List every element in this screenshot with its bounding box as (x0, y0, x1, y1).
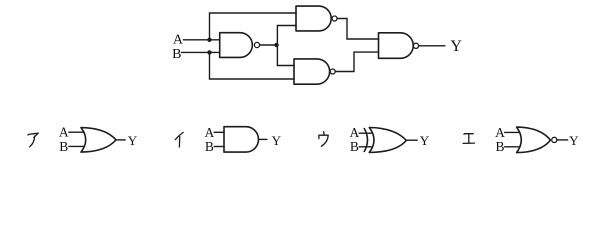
bubble U1 (254, 42, 259, 47)
bubble U3 (330, 69, 335, 74)
wire A into XOR (choice 3) (359, 132, 371, 134)
wire A branch up and across to U2 input 1 (210, 13, 297, 40)
wire NOR output (choice 4) (557, 139, 568, 141)
wire B into XOR (choice 3) (359, 146, 371, 148)
wire A lead (184, 39, 220, 41)
OR gate (choice 1) (81, 128, 116, 153)
bubble U2 (332, 16, 337, 21)
svg-text:A: A (173, 32, 184, 47)
wire AND output (choice 2) (259, 138, 267, 140)
AND gate (choice 2) (224, 127, 259, 152)
wire node up to U2 input 2 (277, 26, 296, 46)
wire U3 output to U4 input 2 (335, 52, 378, 71)
wire U1 output to node (260, 44, 277, 46)
NAND gate U1 (220, 33, 253, 58)
NAND gate U3 (294, 59, 330, 84)
wire XOR output (choice 3) (406, 139, 417, 141)
node U1 output (274, 43, 278, 47)
svg-text:Y: Y (128, 133, 138, 148)
svg-text:Y: Y (272, 133, 282, 148)
svg-text:A: A (350, 125, 360, 140)
svg-text:B: B (205, 139, 214, 154)
NOR gate (choice 4) (517, 127, 551, 153)
svg-text:A: A (59, 125, 69, 140)
svg-text:Y: Y (450, 38, 462, 55)
wire U2 output to U4 input 1 (337, 19, 378, 40)
svg-text:B: B (495, 139, 504, 154)
XOR gate body (choice 3) (369, 128, 406, 153)
NAND gate U2 (296, 6, 331, 31)
wire node down to U3 input 1 (277, 45, 294, 66)
wire B into OR (choice 1) (69, 145, 84, 147)
svg-text:Y: Y (569, 133, 579, 148)
NAND gate U4 (379, 33, 414, 59)
svg-text:Y: Y (420, 133, 430, 148)
wire B into NOR (choice 4) (505, 146, 520, 148)
wire B lead (182, 51, 220, 53)
bubble U4 (413, 43, 418, 48)
node on B line (207, 50, 211, 54)
wire A into AND (choice 2) (214, 131, 224, 133)
bubble NOR (choice 4) (552, 137, 557, 142)
svg-text:B: B (350, 139, 359, 154)
wire U4 output (419, 45, 445, 47)
svg-text:A: A (205, 125, 215, 140)
wire B into AND (choice 2) (214, 146, 224, 148)
wire A into OR (choice 1) (69, 131, 84, 133)
katakana label イ (choice 2) (175, 132, 183, 147)
wire B branch down and across to U3 input 2 (210, 52, 295, 79)
wire OR output (choice 1) (116, 139, 125, 141)
svg-text:A: A (495, 125, 505, 140)
svg-text:B: B (172, 47, 181, 62)
XOR extra input arc (choice 3) (364, 128, 368, 152)
katakana label ア (choice 1) (28, 133, 38, 147)
katakana label ウ (choice 3) (319, 132, 328, 147)
node on A line (207, 38, 211, 42)
wire A into NOR (choice 4) (505, 131, 520, 133)
katakana label エ (choice 4) (463, 134, 474, 144)
svg-text:B: B (59, 139, 68, 154)
